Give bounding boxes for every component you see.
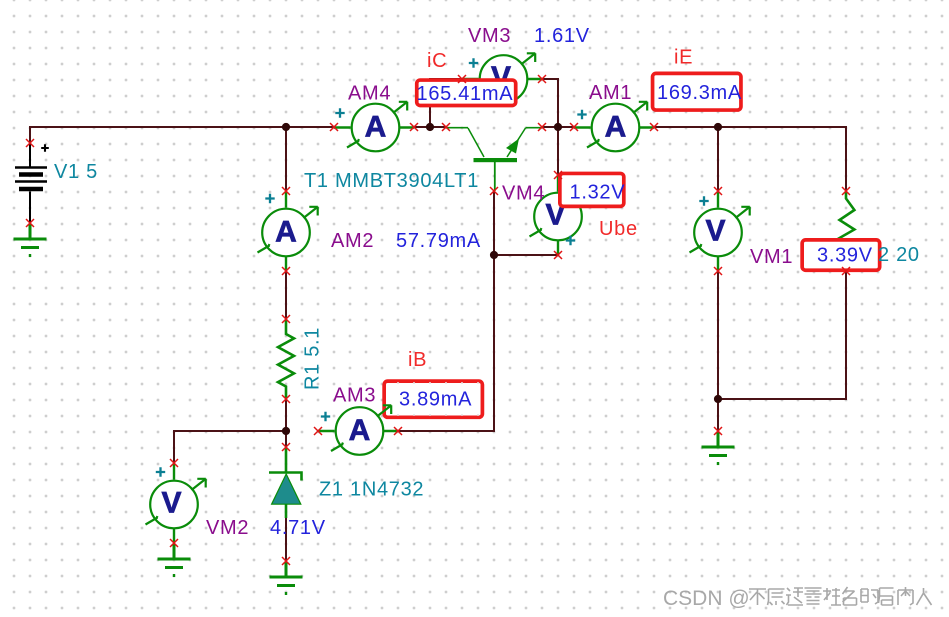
voltmeter VM1	[690, 192, 750, 270]
terminal x (286,271)	[282, 267, 290, 275]
wire	[285, 127, 287, 191]
terminal x (718,191)	[714, 187, 722, 195]
露	[805, 588, 822, 604]
node (718,127)	[714, 123, 722, 131]
terminal x (558,175)	[554, 171, 562, 179]
terminal x (446,127)	[442, 123, 450, 131]
value box VM1	[802, 240, 880, 270]
node (558,127)	[554, 123, 562, 131]
terminal x (654,127)	[650, 123, 658, 131]
node (286,127)	[282, 123, 290, 131]
svg-text:1.61V: 1.61V	[534, 25, 590, 47]
transistor T1	[446, 128, 542, 191]
terminal x (286,447)	[282, 443, 290, 451]
junction dots	[282, 123, 722, 435]
wire	[174, 431, 286, 463]
resistor R2	[840, 192, 855, 270]
svg-text:169.3mA: 169.3mA	[657, 82, 742, 104]
的	[861, 589, 878, 604]
watermark CSDN	[663, 587, 750, 610]
ammeter AM3	[318, 405, 398, 455]
terminal x (398,431)	[394, 427, 402, 435]
terminal x (846,271)	[842, 267, 850, 275]
terminal x (542,127)	[538, 123, 546, 131]
wire	[717, 127, 719, 191]
局	[879, 588, 894, 605]
node (718,399)	[714, 395, 722, 403]
terminal x (30,143)	[26, 139, 34, 147]
内	[898, 587, 913, 605]
zener diode Z1	[269, 448, 302, 518]
wire	[430, 79, 462, 127]
wire	[30, 127, 334, 143]
terminal x (542,79)	[538, 75, 546, 83]
ammeter AM2	[258, 192, 318, 270]
terminal x (558,255)	[554, 251, 562, 259]
terminal x (174,543)	[170, 539, 178, 547]
voltmeter VM3	[462, 53, 542, 103]
svg-text:V1 5: V1 5	[54, 161, 98, 183]
wire	[398, 255, 558, 431]
svg-text:T1 MMBT3904LT1: T1 MMBT3904LT1	[304, 170, 479, 192]
ground (VM2)	[158, 544, 191, 576]
terminal x (286,319)	[282, 315, 290, 323]
terminal x (30,223)	[26, 219, 34, 227]
名	[843, 587, 857, 605]
value box Ube	[560, 173, 624, 206]
svg-text:AM3: AM3	[333, 385, 376, 407]
terminal x (318,431)	[314, 427, 322, 435]
svg-text:AM1: AM1	[589, 82, 632, 104]
ground (battery)	[14, 224, 47, 256]
terminal x (574,127)	[570, 123, 578, 131]
svg-text:iB: iB	[408, 349, 427, 371]
svg-text:AM4: AM4	[348, 83, 391, 105]
svg-text:VM4: VM4	[502, 183, 545, 205]
wire	[285, 518, 287, 561]
terminal x (494,191)	[490, 187, 498, 195]
ammeter AM1	[574, 102, 654, 152]
value box iC	[417, 80, 516, 105]
ground (right)	[702, 432, 735, 464]
透	[786, 588, 803, 605]
svg-text:iE: iE	[674, 47, 693, 69]
ground (zener Z1)	[270, 562, 303, 594]
resistor R1	[278, 320, 294, 398]
terminal x (462,79)	[458, 75, 466, 83]
battery V1	[15, 143, 49, 223]
svg-text:CSDN @: CSDN @	[663, 587, 750, 610]
svg-text:57.79mA: 57.79mA	[396, 230, 481, 252]
terminal x (174,463)	[170, 459, 178, 467]
node (494,255)	[490, 251, 498, 259]
wire	[414, 126, 446, 128]
svg-text:iC: iC	[427, 50, 447, 72]
terminal x (334,127)	[330, 123, 338, 131]
wire	[285, 399, 287, 447]
svg-text:1.32V: 1.32V	[570, 182, 626, 204]
value box iE	[653, 73, 741, 110]
terminal x (286,191)	[282, 187, 290, 195]
terminal x (846,191)	[842, 187, 850, 195]
wire	[542, 79, 558, 175]
value box iB	[384, 381, 482, 417]
svg-text:3.89mA: 3.89mA	[399, 389, 472, 411]
svg-text:VM1: VM1	[750, 246, 793, 268]
人	[917, 588, 932, 605]
svg-text:2 20: 2 20	[878, 244, 920, 266]
svg-text:VM2: VM2	[206, 517, 249, 539]
愿	[768, 589, 785, 605]
姓	[823, 588, 841, 605]
terminal x (286,561)	[282, 557, 290, 565]
voltmeter VM4	[530, 176, 590, 254]
wire	[285, 271, 287, 319]
terminal x (286,399)	[282, 395, 290, 403]
svg-text:165.41mA: 165.41mA	[417, 83, 514, 105]
svg-text:4.71V: 4.71V	[270, 517, 326, 539]
wire	[654, 127, 846, 192]
svg-text:Ube: Ube	[599, 218, 638, 240]
svg-text:AM2: AM2	[331, 230, 374, 252]
wire	[717, 271, 719, 431]
svg-text:R1 5.1: R1 5.1	[302, 327, 324, 390]
voltmeter VM2	[146, 464, 206, 542]
svg-text:VM3: VM3	[468, 25, 511, 47]
terminal x marks	[26, 75, 850, 565]
wire	[542, 126, 574, 128]
ammeter AM4	[334, 102, 414, 152]
svg-text:3.39V: 3.39V	[817, 245, 873, 267]
terminal x (718,431)	[714, 427, 722, 435]
不	[749, 589, 766, 605]
node (286,431)	[282, 427, 290, 435]
terminal x (414,127)	[410, 123, 418, 131]
svg-text:Z1 1N4732: Z1 1N4732	[319, 479, 424, 501]
node (430,127)	[426, 123, 434, 131]
terminal x (718,271)	[714, 267, 722, 275]
wire	[718, 270, 846, 399]
wire	[493, 191, 495, 255]
